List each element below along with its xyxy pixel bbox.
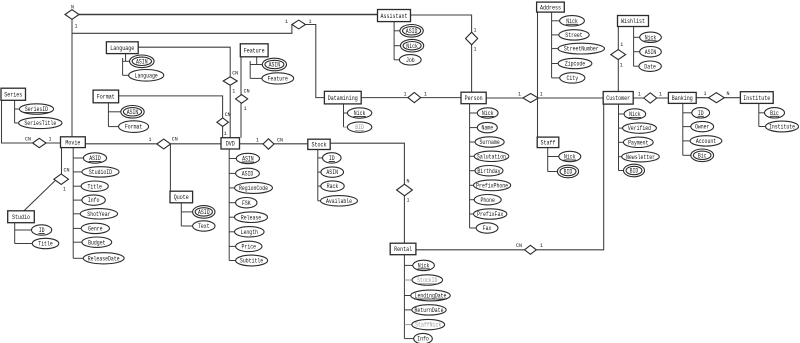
svg-text:CN: CN — [64, 167, 70, 174]
wire Quote drop from Movie-DVD line — [169, 144, 171, 191]
attribute tick DVD.FSK — [229, 202, 235, 204]
wire DVD to Stock — [240, 143, 308, 145]
svg-text:Studio: Studio — [12, 214, 30, 221]
svg-text:CN: CN — [516, 242, 522, 249]
attribute tick Rental.StockID — [404, 279, 412, 281]
svg-text:Street: Street — [565, 32, 582, 39]
attribute Movie.StudioID — [82, 167, 119, 177]
relationship diamond mines (Movie-Datamining) — [292, 20, 306, 29]
attribute tick Person.Phone — [470, 199, 475, 201]
attribute Person.Phone — [474, 195, 501, 205]
svg-text:1: 1 — [540, 242, 543, 249]
attribute tick Datamining.BID — [344, 126, 348, 128]
svg-text:Datamining: Datamining — [328, 95, 358, 102]
relationship diamond is a (Person-Customer-Address-Staff) — [523, 94, 538, 103]
attribute tick Customer.Nick — [619, 113, 625, 115]
svg-text:1: 1 — [244, 105, 247, 112]
svg-text:1: 1 — [638, 91, 641, 98]
attribute tick Studio.Title — [15, 243, 33, 245]
wire Assistant to top-left relationship — [79, 14, 378, 16]
wire Language to DVD — [138, 47, 230, 138]
attribute connector Banking — [682, 103, 684, 155]
relationship diamond stored as (DVD-Stock) — [263, 139, 274, 149]
attribute Series.SeriesID (key) — [19, 104, 53, 114]
attribute tick Studio.ID — [15, 229, 32, 231]
wire Banking to Institute — [696, 97, 740, 99]
svg-text:Series: Series — [4, 92, 22, 99]
svg-text:Nick: Nick — [629, 111, 641, 118]
svg-text:1: 1 — [424, 91, 427, 98]
attribute Format.ASIN (derived) — [121, 106, 144, 119]
attribute connector Format — [107, 103, 109, 127]
attribute tick DVD.ASID — [229, 172, 235, 174]
attribute tick Language.ASIN — [123, 60, 130, 62]
entity Banking — [668, 92, 696, 103]
attribute tick Stock.Rack — [318, 185, 321, 187]
attribute connector Assistant — [393, 22, 395, 60]
attribute tick Customer.Newsletter — [619, 156, 622, 158]
svg-text:Movie: Movie — [65, 139, 80, 146]
entity Customer — [603, 92, 633, 105]
attribute Movie.ASID (key) — [83, 153, 106, 163]
attribute Person.PrefixFax — [474, 209, 507, 219]
attribute tick DVD.RegionCode — [229, 187, 234, 189]
attribute tick Banking.Bic — [683, 154, 691, 156]
attribute Quote.ASID (derived) — [193, 206, 215, 219]
relationship diamond has format (Format-DVD) — [217, 118, 229, 127]
attribute tick Institute.Bic — [759, 112, 765, 114]
relationship diamond produced by (Movie-Studio) — [54, 174, 69, 185]
attribute tick Movie.Genre — [73, 227, 81, 229]
attribute connector Feature2 — [249, 61, 251, 78]
relationship diamond rents (Rental-Customer) — [525, 245, 537, 254]
attribute Feature.Feature — [262, 73, 294, 84]
svg-text:CN: CN — [25, 136, 31, 143]
attribute tick Person.Salutation — [470, 155, 475, 157]
entity Datamining — [324, 91, 361, 104]
svg-text:1: 1 — [474, 27, 477, 34]
svg-text:Title: Title — [38, 241, 53, 248]
relationship diamond has feature (Feature-DVD) — [236, 95, 248, 104]
svg-text:ReturnDate: ReturnDate — [415, 307, 444, 314]
attribute Banking.Bic (derived) — [691, 149, 714, 162]
svg-text:Rental: Rental — [394, 246, 412, 253]
attribute Rental.LendingDate (key) — [411, 290, 451, 301]
attribute connector Quote — [180, 203, 182, 226]
attribute tick Series.SeriesID — [15, 108, 20, 110]
svg-text:1: 1 — [620, 62, 623, 69]
wire Datamining to Person — [361, 97, 461, 99]
svg-text:Rack: Rack — [327, 183, 339, 190]
svg-text:N: N — [407, 178, 410, 185]
attribute DVD.Release — [235, 212, 268, 223]
attribute tick Address.City — [552, 77, 560, 79]
entity Language — [106, 42, 138, 54]
attribute DVD.ASIN (key) — [236, 153, 259, 163]
svg-text:Job: Job — [406, 57, 415, 64]
attribute tick Movie.ASID — [73, 157, 83, 159]
svg-text:CN: CN — [244, 87, 250, 94]
attribute tick DVD.Release — [229, 216, 234, 218]
entity Assistant — [378, 10, 411, 22]
wire Person to Customer — [486, 97, 603, 99]
attribute connector DVD — [228, 149, 230, 261]
attribute Movie.Budget — [82, 237, 112, 247]
relationship diamond has language (Language-DVD) — [223, 77, 237, 85]
svg-text:LendingDate: LendingDate — [415, 293, 447, 300]
attribute tick Movie.Title — [73, 185, 81, 187]
svg-text:ASIN: ASIN — [645, 49, 657, 56]
attribute tick Wishlist.Date — [634, 65, 639, 67]
attribute Movie.Title — [81, 181, 108, 191]
attribute Rental.StockID (foreign key) — [412, 275, 443, 285]
svg-text:City: City — [567, 75, 579, 82]
attribute tick Format.ASIN — [108, 111, 120, 113]
wire Movie to DVD — [85, 143, 221, 145]
svg-text:Genre: Genre — [88, 226, 103, 233]
attribute Address.City — [560, 73, 585, 83]
attribute Quote.Text — [193, 221, 215, 231]
attribute Staff.BID (derived) — [557, 165, 578, 178]
svg-text:1: 1 — [285, 18, 288, 25]
svg-text:Date: Date — [644, 63, 656, 70]
svg-text:1: 1 — [149, 136, 152, 143]
attribute Rental.Info — [414, 333, 433, 343]
attribute Movie.Info — [82, 195, 105, 205]
attribute tick Feature.Feature — [250, 77, 262, 79]
wire Stock to Rental — [330, 143, 404, 243]
attribute connector Language — [125, 54, 127, 62]
attribute tick Address.Street — [552, 34, 559, 36]
svg-text:CN: CN — [225, 111, 231, 118]
attribute Stock.ASIN — [321, 167, 344, 177]
attribute tick Quote.ASID — [181, 211, 192, 213]
attribute tick Rental.ReturnDate — [404, 309, 411, 311]
svg-text:Assistant: Assistant — [381, 13, 408, 20]
attribute Wishlist.Nick (key) — [640, 32, 662, 42]
svg-text:BID: BID — [630, 168, 639, 175]
svg-text:Language: Language — [135, 72, 159, 79]
svg-text:Format: Format — [125, 124, 142, 131]
svg-text:StudioID: StudioID — [89, 169, 113, 176]
attribute tick Stock.ID — [318, 157, 323, 159]
attribute Wishlist.Date — [639, 61, 661, 71]
svg-text:StockID: StockID — [417, 277, 438, 284]
wire Studio diagonal — [24, 181, 55, 211]
attribute connector Person — [469, 104, 471, 228]
svg-text:Title: Title — [87, 183, 102, 190]
svg-text:ASID: ASID — [242, 171, 254, 178]
attribute Banking.Owner — [691, 121, 714, 131]
attribute Person.Fax — [476, 223, 498, 233]
attribute Stock.ID (key) — [323, 153, 342, 163]
relationship diamond belongs to (Series-Movie) — [33, 138, 46, 147]
entity Address — [537, 2, 565, 12]
svg-text:Institute: Institute — [769, 124, 795, 131]
svg-text:Account: Account — [696, 138, 716, 145]
attribute Person.Nick (key) — [477, 108, 498, 118]
svg-text:Surname: Surname — [479, 139, 500, 146]
svg-text:Banking: Banking — [672, 95, 693, 102]
svg-text:1: 1 — [232, 88, 235, 95]
attribute Movie.Genre — [81, 223, 109, 233]
attribute Customer.BID (derived) — [624, 164, 645, 177]
wire Customer to Banking — [633, 97, 668, 99]
svg-text:1: 1 — [224, 130, 227, 137]
svg-text:DVD: DVD — [226, 141, 235, 148]
attribute connector Institute — [758, 103, 760, 126]
svg-text:Wishlist: Wishlist — [621, 18, 645, 25]
attribute tick Customer.BID — [619, 170, 624, 172]
attribute tick Language.Language — [123, 74, 129, 76]
relationship diamond helps (Assistant-Person) — [466, 32, 478, 45]
svg-text:SeriesTitle: SeriesTitle — [24, 120, 56, 127]
attribute Person.Birthday — [475, 166, 503, 176]
entity Rental — [390, 243, 416, 255]
svg-text:Feature: Feature — [268, 76, 289, 83]
svg-text:Available: Available — [326, 198, 352, 205]
attribute tick Customer.Verified — [619, 127, 623, 129]
svg-text:Customer: Customer — [606, 95, 630, 102]
wire Wishlist to Customer — [617, 27, 619, 92]
svg-text:Price: Price — [242, 244, 257, 251]
svg-text:Bic: Bic — [698, 152, 707, 159]
svg-text:1: 1 — [256, 137, 259, 144]
svg-text:RegionCode: RegionCode — [239, 185, 268, 192]
entity DVD — [221, 138, 240, 149]
attribute Institute.Institute — [766, 121, 799, 132]
svg-text:1: 1 — [704, 90, 707, 97]
svg-text:Phone: Phone — [480, 197, 495, 204]
attribute Datamining.BID (foreign key) — [347, 122, 371, 132]
relationship diamond lent (Stock-Rental) — [397, 184, 413, 196]
attribute tick Person.Surname — [470, 141, 475, 143]
attribute Feature.ASIN (derived) — [262, 58, 286, 71]
svg-text:Format: Format — [97, 94, 115, 101]
svg-text:Info: Info — [417, 336, 429, 343]
svg-text:Nick: Nick — [482, 110, 494, 117]
svg-text:1: 1 — [63, 186, 66, 193]
attribute tick DVD.ASIN — [229, 158, 236, 160]
attribute tick Series.SeriesTitle — [15, 122, 19, 124]
relationship diamond analyses (Datamining-Person) — [408, 93, 421, 103]
attribute DVD.Price — [236, 241, 262, 251]
attribute connector Studio — [14, 223, 16, 244]
svg-text:Nick: Nick — [418, 263, 430, 270]
svg-text:Verified: Verified — [628, 125, 652, 132]
svg-text:N: N — [71, 4, 74, 11]
attribute tick Movie.Info — [73, 199, 82, 201]
svg-text:Subtitle: Subtitle — [240, 258, 264, 265]
svg-text:StreetNumber: StreetNumber — [564, 46, 599, 53]
wire Feature to DVD — [240, 57, 242, 138]
svg-text:Nick: Nick — [564, 154, 576, 161]
attribute Rental.ReturnDate — [412, 305, 446, 315]
attribute Language.Language — [129, 70, 164, 82]
svg-text:N: N — [727, 90, 730, 97]
svg-text:1: 1 — [659, 91, 662, 98]
svg-text:Person: Person — [465, 95, 483, 102]
svg-text:Nick: Nick — [354, 110, 366, 117]
svg-text:1: 1 — [518, 91, 521, 98]
attribute tick Stock.ASIN — [318, 171, 321, 173]
entity Series — [1, 88, 26, 100]
wire Assistant to Person — [411, 15, 472, 92]
svg-text:1: 1 — [407, 197, 410, 204]
attribute Movie.ReleaseDate — [83, 253, 124, 264]
attribute tick Rental.StaffNick — [404, 324, 411, 326]
attribute tick Movie.ReleaseDate — [73, 257, 83, 259]
attribute tick Banking.Owner — [683, 126, 691, 128]
attribute connector Stock — [317, 150, 319, 201]
attribute DVD.Subtitle — [236, 255, 268, 266]
svg-text:Zipcode: Zipcode — [565, 61, 586, 68]
svg-text:BID: BID — [355, 124, 364, 131]
wire Address to Staff — [537, 12, 539, 137]
attribute connector Language2 — [122, 58, 124, 75]
svg-text:ID: ID — [329, 155, 335, 162]
attribute tick DVD.Subtitle — [229, 260, 235, 262]
attribute connector Datamining — [343, 104, 345, 127]
attribute connector Address — [551, 12, 553, 78]
attribute connector Movie — [72, 148, 74, 259]
attribute Series.SeriesTitle — [19, 117, 62, 128]
entity Institute — [740, 92, 773, 104]
svg-text:Birthday: Birthday — [477, 168, 501, 175]
svg-text:ID: ID — [39, 227, 45, 234]
attribute tick Movie.Budget — [73, 241, 82, 243]
svg-text:1: 1 — [404, 91, 407, 98]
attribute tick Assistant.ASID — [394, 30, 400, 32]
svg-text:Budget: Budget — [88, 239, 105, 246]
svg-text:Stock: Stock — [312, 142, 327, 149]
attribute Assistant.ASID (derived) — [400, 25, 423, 38]
attribute Person.PrefixPhone — [474, 180, 511, 191]
svg-text:Nick: Nick — [406, 43, 418, 50]
svg-text:1: 1 — [540, 91, 543, 98]
svg-text:BID: BID — [564, 169, 573, 176]
attribute tick DVD.Price — [229, 245, 235, 247]
svg-text:ASIN: ASIN — [136, 58, 148, 65]
svg-text:PrefixFax: PrefixFax — [477, 211, 503, 218]
svg-text:ASIN: ASIN — [326, 169, 338, 176]
svg-text:Release: Release — [241, 214, 262, 221]
attribute tick Format.Format — [108, 126, 118, 128]
svg-text:Owner: Owner — [695, 124, 710, 131]
svg-text:CN: CN — [232, 70, 238, 77]
attribute tick Datamining.Nick — [344, 112, 348, 114]
attribute tick Address.Zipcode — [552, 63, 559, 65]
wire Movie side of Movie-Datamining — [72, 25, 292, 34]
wire Movie to relationship (top-left) — [71, 19, 73, 137]
attribute Person.Name — [477, 122, 497, 132]
relationship diamond wishes (Wishlist-Customer) — [611, 50, 626, 60]
svg-text:ASIN: ASIN — [127, 109, 139, 116]
attribute DVD.FSK — [236, 198, 257, 208]
svg-text:ASID: ASID — [406, 28, 418, 35]
svg-text:Feature: Feature — [244, 48, 265, 55]
svg-text:Quote: Quote — [174, 194, 189, 201]
attribute tick Rental.Info — [404, 338, 413, 340]
attribute tick Person.Nick — [470, 112, 478, 114]
svg-text:ReleaseDate: ReleaseDate — [88, 255, 120, 262]
attribute DVD.Length — [235, 227, 265, 237]
svg-text:Bic: Bic — [770, 110, 779, 117]
svg-text:CN: CN — [277, 137, 283, 144]
attribute tick Person.Birthday — [470, 170, 475, 172]
entity Format — [93, 90, 119, 103]
attribute Person.Surname — [475, 137, 504, 147]
svg-text:1: 1 — [620, 41, 623, 48]
attribute DVD.RegionCode — [235, 182, 273, 193]
svg-text:ASID: ASID — [198, 209, 210, 216]
relationship diamond has quote (Movie-Quote-DVD) — [157, 139, 171, 149]
attribute tick Person.PrefixFax — [470, 213, 474, 215]
svg-text:PrefixPhone: PrefixPhone — [476, 182, 508, 189]
svg-text:ShotYear: ShotYear — [87, 211, 111, 218]
svg-text:Fax: Fax — [483, 225, 492, 232]
svg-text:Salutation: Salutation — [477, 153, 506, 160]
svg-text:Length: Length — [241, 229, 259, 236]
svg-text:1: 1 — [49, 136, 52, 143]
wire Format to DVD — [119, 96, 223, 138]
attribute tick Address.StreetNumber — [552, 48, 559, 50]
attribute Datamining.Nick (key) — [347, 108, 371, 118]
attribute tick Person.Name — [470, 127, 478, 129]
attribute Institute.Bic (key) — [765, 108, 785, 118]
attribute tick Quote.Text — [181, 225, 192, 227]
attribute tick DVD.Length — [229, 231, 234, 233]
svg-text:SeriesID: SeriesID — [25, 106, 49, 113]
relationship diamond assists (Assistant-Movie) — [65, 10, 79, 20]
attribute tick Staff.BID — [548, 171, 558, 173]
attribute tick Institute.Institute — [759, 126, 766, 128]
attribute tick Person.Fax — [470, 227, 477, 229]
svg-text:FSK: FSK — [242, 200, 251, 207]
attribute Address.Street — [559, 30, 589, 40]
attribute connector Staff — [547, 148, 549, 172]
attribute Format.Format — [119, 121, 149, 133]
entity Quote — [170, 191, 193, 203]
attribute Movie.ShotYear — [80, 209, 117, 219]
svg-text:Payment: Payment — [628, 139, 648, 146]
svg-text:StaffNick: StaffNick — [415, 322, 441, 329]
wire Movie to Studio vertical — [61, 148, 63, 175]
svg-text:ID: ID — [698, 110, 704, 117]
svg-text:1: 1 — [474, 46, 477, 53]
attribute Wishlist.ASIN — [640, 47, 662, 57]
attribute Banking.ID (key) — [692, 108, 710, 118]
attribute connector Customer — [618, 104, 620, 170]
attribute Customer.Nick (key) — [624, 109, 646, 119]
attribute Studio.ID (key) — [31, 225, 51, 235]
svg-text:Nick: Nick — [645, 34, 657, 41]
attribute tick Stock.Available — [318, 200, 321, 202]
attribute Rental.Nick (key) — [413, 260, 435, 270]
svg-text:Info: Info — [88, 197, 100, 204]
svg-text:Newsletter: Newsletter — [626, 154, 655, 161]
attribute tick Banking.ID — [683, 112, 692, 114]
attribute Staff.Nick (key) — [559, 151, 581, 161]
svg-text:Language: Language — [110, 45, 134, 52]
relationship diamond pays via (Customer-Banking) — [644, 93, 657, 103]
svg-text:1: 1 — [75, 23, 78, 30]
entity Person — [461, 92, 486, 104]
attribute tick Rental.Nick — [404, 264, 412, 266]
attribute Customer.Verified — [623, 123, 657, 133]
svg-text:Staff: Staff — [541, 140, 556, 147]
svg-text:CN: CN — [172, 136, 178, 143]
